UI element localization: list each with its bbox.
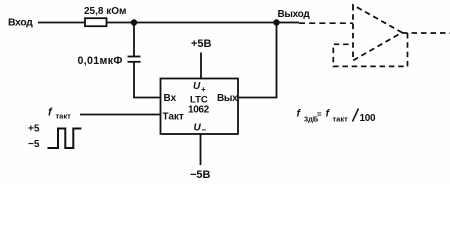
svg-text:U: U [193,81,201,92]
svg-text:f: f [326,108,331,120]
svg-text:0,01мкФ: 0,01мкФ [78,55,123,67]
resistor R1 25,8 kOhm body [85,18,107,26]
svg-text:1062: 1062 [188,105,210,116]
wire dashed buffer output [402,32,450,34]
svg-text:+5: +5 [28,124,40,135]
svg-text:Вход: Вход [8,17,33,29]
svg-text:−5В: −5В [190,169,211,181]
svg-text:Такт: Такт [163,112,184,123]
svg-text:такт: такт [333,115,349,124]
svg-text:=: = [317,110,322,119]
clock square wave symbol [48,129,82,149]
capacitor C1 plates [128,57,141,62]
svg-text:Вых: Вых [217,93,238,104]
svg-text:+5В: +5В [191,38,212,50]
wire Выход node down to Вых pin of U1 [238,23,277,98]
op-amp U1 LTC1062 body [161,79,239,135]
op-amp buffer (dashed triangle) [353,5,402,61]
svg-text:U: U [194,123,202,134]
svg-text:25,8 кОм: 25,8 кОм [84,6,126,17]
node Выход junction dot [273,19,279,25]
svg-text:100: 100 [360,113,377,124]
wire dashed buffer input [299,22,353,24]
svg-text:такт: такт [56,112,72,121]
svg-text:f: f [48,107,53,119]
wire input to resistor [38,22,85,24]
svg-text:−: − [202,126,207,135]
node A junction dot (R/C junction) [131,19,137,25]
wire capacitor to Вх pin of U1 [134,62,161,98]
wire U1 to -5V supply [200,134,202,165]
wire dashed feedback loop [333,33,407,66]
wire resistor to output node [107,22,300,24]
svg-text:Выход: Выход [278,9,311,20]
formula f3dB = ftakt /100 [297,108,377,125]
wire clock input to Такт pin [80,114,161,116]
svg-text:Вх: Вх [164,93,177,104]
svg-text:+: + [201,85,206,94]
wire +5V supply to U1 [200,53,202,79]
wire node A down to capacitor [133,23,135,57]
svg-text:−5: −5 [28,139,40,150]
svg-text:f: f [297,108,302,120]
